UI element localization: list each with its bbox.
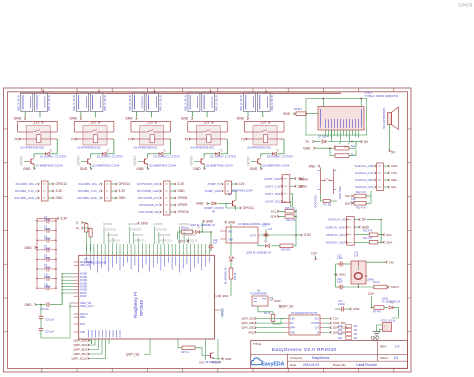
svg-text:C20 1uF: C20 1uF bbox=[45, 332, 55, 334]
wire connector to 12V rail bbox=[42, 90, 44, 94]
svg-text:GPIO8: GPIO8 bbox=[153, 222, 163, 226]
svg-text:GPIO0: GPIO0 bbox=[103, 222, 113, 226]
svg-text:-: - bbox=[384, 328, 385, 332]
wire base to gpio bbox=[251, 160, 254, 162]
value label relay K2 bbox=[77, 146, 101, 150]
svg-text:Drawn By:: Drawn By: bbox=[333, 363, 347, 367]
resistor R7 rt led bbox=[371, 306, 384, 314]
connector P11 solenoid 2 bbox=[14, 181, 67, 201]
svg-text:PAD_07_PL-05: PAD_07_PL-05 bbox=[17, 94, 20, 110]
resistor R1 1k bbox=[258, 306, 275, 324]
svg-text:(GPIO10): (GPIO10) bbox=[157, 233, 170, 237]
svg-text:100nF: 100nF bbox=[44, 268, 51, 270]
svg-text:R12 4.7k: R12 4.7k bbox=[363, 229, 374, 232]
svg-text:USB_VDD: USB_VDD bbox=[80, 265, 91, 267]
svg-text:Q3 MMBT4401-C2144: Q3 MMBT4401-C2144 bbox=[206, 164, 234, 168]
svg-text:TestPoint_GND: TestPoint_GND bbox=[354, 164, 374, 168]
wire relay to diode bbox=[50, 139, 57, 154]
svg-text:GND: GND bbox=[225, 357, 231, 361]
svg-text:QSPI_SS: QSPI_SS bbox=[126, 353, 139, 357]
wire diode to transistor collector bbox=[147, 154, 158, 158]
svg-text:SWD: SWD bbox=[80, 317, 86, 319]
svg-text:VREG_VIN: VREG_VIN bbox=[80, 303, 92, 305]
ic U7 RP2040 body bbox=[79, 255, 215, 339]
svg-text:BOOTSEL: BOOTSEL bbox=[338, 185, 342, 199]
transistor Q2 NPN bbox=[141, 158, 148, 165]
svg-text:GND: GND bbox=[250, 167, 258, 171]
wire 12V loop to relay bbox=[18, 122, 58, 133]
wire USB pins down bbox=[326, 130, 359, 142]
power 7V port 4 bbox=[184, 137, 190, 141]
svg-text:1.0: 1.0 bbox=[395, 344, 400, 348]
diode D5 flyback bbox=[216, 149, 223, 155]
svg-text:RUN: RUN bbox=[80, 324, 85, 326]
svg-text:K5 HF46F/005-HS1: K5 HF46F/005-HS1 bbox=[247, 146, 271, 150]
power 7V port 1 bbox=[14, 137, 20, 141]
svg-text:GPIO25: GPIO25 bbox=[223, 307, 225, 316]
svg-text:QSPI_SD2: QSPI_SD2 bbox=[73, 348, 87, 352]
svg-text:Q1 MMBT4401-C2144: Q1 MMBT4401-C2144 bbox=[92, 164, 120, 168]
svg-text:1uF: 1uF bbox=[351, 201, 356, 204]
svg-text:QSPI_SD1: QSPI_SD1 bbox=[241, 317, 254, 321]
rev cell bbox=[380, 344, 400, 348]
svg-text:IOVDD: IOVDD bbox=[80, 290, 87, 292]
svg-text:GND: GND bbox=[309, 164, 317, 168]
svg-text:QSPI_SCLK: QSPI_SCLK bbox=[333, 326, 348, 330]
svg-text:GPIO12: GPIO12 bbox=[179, 222, 190, 226]
svg-text:R1 1k: R1 1k bbox=[264, 312, 271, 315]
net label D- with resistor R2 bbox=[76, 221, 88, 251]
wire connector pin to relay coil bbox=[39, 112, 41, 118]
svg-text:EasyGreens: EasyGreens bbox=[312, 356, 330, 360]
svg-text:100nF: 100nF bbox=[44, 229, 51, 231]
wire connector pin to relay coil bbox=[206, 112, 208, 118]
svg-text:GPIO10: GPIO10 bbox=[178, 210, 190, 214]
svg-text:SWCLK: SWCLK bbox=[80, 314, 88, 316]
net labels GPIO grid bbox=[103, 222, 198, 243]
svg-text:D1 1N4007_C727970: D1 1N4007_C727970 bbox=[40, 154, 67, 158]
value label Q3 MMBT4401 bbox=[206, 164, 234, 168]
power 3.3V ladder bbox=[37, 217, 68, 221]
svg-text:R5 5k1: R5 5k1 bbox=[294, 108, 302, 111]
svg-text:GND: GND bbox=[196, 202, 204, 206]
svg-text:PAD_07_PL-05: PAD_07_PL-05 bbox=[48, 94, 51, 110]
svg-text:LED3 KL-1608UBC-04: LED3 KL-1608UBC-04 bbox=[190, 224, 215, 227]
wire q4 emitter gnd bbox=[235, 207, 237, 211]
svg-text:TYPE-C 16PIN 2MD(073): TYPE-C 16PIN 2MD(073) bbox=[365, 94, 398, 98]
connector P6 display bbox=[326, 217, 370, 246]
power 12V label 5 bbox=[260, 121, 270, 125]
net label XOUT bottom bbox=[212, 344, 220, 364]
power 12V rt01 bbox=[368, 292, 375, 307]
resistor R17 speaker drive bbox=[178, 344, 207, 355]
ground GND q6 bbox=[214, 357, 232, 361]
svg-text:SUN-12V-85DB-MP3: SUN-12V-85DB-MP3 bbox=[384, 107, 386, 129]
svg-text:GND: GND bbox=[206, 220, 214, 224]
net label QSPI_SS bottom bbox=[126, 344, 150, 357]
resistor R12 scl pullup bbox=[345, 191, 371, 198]
power 7V port 3 bbox=[127, 137, 133, 141]
svg-text:D+: D+ bbox=[76, 226, 80, 230]
wire diode to transistor collector bbox=[91, 154, 102, 158]
svg-text:LIGHT_SDA: LIGHT_SDA bbox=[265, 192, 281, 196]
connector P1 screw terminal A bbox=[17, 93, 32, 112]
svg-text:GPIO7: GPIO7 bbox=[246, 156, 250, 166]
svg-text:GPIO14: GPIO14 bbox=[119, 182, 131, 186]
svg-text:100nF: 100nF bbox=[44, 248, 51, 250]
svg-text:3.3V: 3.3V bbox=[56, 189, 63, 193]
svg-text:Q2 MMBT4401-C2144: Q2 MMBT4401-C2144 bbox=[149, 164, 177, 168]
transistor Q1 NPN bbox=[84, 158, 91, 165]
net label GPIO2 bbox=[20, 156, 24, 166]
ground GND connector 2 bbox=[70, 112, 82, 121]
wire 12V loop to relay bbox=[74, 122, 114, 133]
svg-text:TestPoint_SCL: TestPoint_SCL bbox=[355, 185, 374, 189]
svg-text:IOVDD: IOVDD bbox=[80, 274, 87, 276]
connector RT01 12V in bbox=[377, 318, 399, 333]
svg-text:XC6206P332MR: XC6206P332MR bbox=[250, 294, 267, 296]
power 5V speaker bbox=[391, 150, 396, 154]
resistor R11 sda pullup bbox=[345, 191, 371, 209]
svg-text:DISPLAY_SCL: DISPLAY_SCL bbox=[326, 233, 345, 237]
connector P8 pump bbox=[205, 181, 246, 194]
capacitor C19 1uF bbox=[209, 232, 219, 252]
transistor Q4 pump NPN bbox=[228, 190, 253, 207]
svg-text:R12 4.7k: R12 4.7k bbox=[356, 191, 367, 194]
svg-text:GPIO13: GPIO13 bbox=[56, 182, 68, 186]
svg-text:GND: GND bbox=[290, 332, 295, 334]
relay K1 body bbox=[18, 126, 58, 145]
title block border bbox=[251, 341, 408, 369]
svg-text:GND: GND bbox=[25, 303, 33, 307]
wire diode to transistor collector bbox=[34, 154, 45, 158]
capacitor C13 12pF bbox=[335, 278, 374, 289]
svg-text:ROTVNOB_GND: ROTVNOB_GND bbox=[137, 189, 159, 193]
wire connector to 12V rail bbox=[154, 90, 156, 94]
svg-text:QSPI_SCLK: QSPI_SCLK bbox=[71, 357, 87, 361]
capacitor C12 12pF bbox=[335, 255, 351, 267]
value label relay K1 bbox=[21, 146, 45, 150]
svg-text:Sheet:: Sheet: bbox=[380, 356, 389, 360]
svg-text:R11 4.7k: R11 4.7k bbox=[356, 206, 366, 209]
logo EasyEDA bbox=[251, 358, 285, 368]
svg-text:D2 1N4007_C727970: D2 1N4007_C727970 bbox=[97, 154, 124, 158]
svg-text:SOLSBN_3.3V_2: SOLSBN_3.3V_2 bbox=[15, 189, 38, 193]
svg-text:GPIO4: GPIO4 bbox=[128, 222, 138, 226]
mcu right pins bbox=[214, 294, 228, 318]
svg-text:SOLSBN_3.3V_1: SOLSBN_3.3V_1 bbox=[78, 189, 101, 193]
svg-text:K2 HF46F/005-HS1: K2 HF46F/005-HS1 bbox=[77, 146, 101, 150]
wire C16 to vreg pins bbox=[69, 303, 73, 338]
svg-text:R13 1k: R13 1k bbox=[235, 272, 237, 280]
title text bbox=[253, 342, 337, 352]
wire relay to diode bbox=[277, 139, 284, 154]
value label USB1 TYPE-C bbox=[365, 91, 398, 99]
connector P12 testpoints bbox=[354, 163, 397, 191]
svg-text:QSPI_SS: QSPI_SS bbox=[280, 304, 293, 308]
svg-text:RT01 12V IN: RT01 12V IN bbox=[381, 320, 395, 323]
resistor R4 1k xout bbox=[373, 281, 399, 289]
relay K2 body bbox=[74, 126, 114, 145]
ground GND connector 3 bbox=[125, 112, 137, 121]
ic U4 ldo small bbox=[250, 289, 268, 306]
svg-text:100nF: 100nF bbox=[44, 287, 51, 289]
svg-text:SDA: SDA bbox=[345, 201, 351, 205]
net label D+ with resistor R3 bbox=[76, 226, 92, 251]
value label D2 1N4007 bbox=[97, 154, 124, 158]
svg-text:R4 1k: R4 1k bbox=[373, 281, 380, 284]
svg-text:12V: 12V bbox=[311, 252, 318, 256]
net labels QSPI bottom bbox=[71, 339, 105, 361]
wire display 5V pullup rail bbox=[367, 219, 382, 243]
svg-text:ROTVNOB_DT: ROTVNOB_DT bbox=[139, 203, 159, 207]
wire connector pin to relay coil bbox=[262, 112, 264, 118]
svg-text:D3 1N4007_C727970: D3 1N4007_C727970 bbox=[153, 154, 180, 158]
svg-text:(GPIO3): (GPIO3) bbox=[109, 239, 120, 243]
svg-text:GND: GND bbox=[298, 177, 306, 181]
speaker LS1 buzzer bbox=[384, 107, 398, 130]
ground GND transistor 2 bbox=[80, 165, 92, 171]
svg-text:DO: DO bbox=[290, 323, 294, 325]
svg-text:GND: GND bbox=[181, 117, 189, 121]
ground GND usb shell with resistor R5 bbox=[283, 108, 318, 116]
svg-text:GND: GND bbox=[23, 167, 31, 171]
svg-text:K3 HF46F/005-HS1: K3 HF46F/005-HS1 bbox=[134, 146, 158, 150]
ground GND connector 4 bbox=[181, 112, 193, 121]
svg-text:GND: GND bbox=[25, 246, 33, 250]
svg-text:12pF: 12pF bbox=[337, 281, 343, 284]
net label BOOTSEL vertical 2 bbox=[314, 194, 318, 208]
svg-text:GND: GND bbox=[237, 117, 245, 121]
svg-text:Q5 MMBT4401-C2144: Q5 MMBT4401-C2144 bbox=[262, 164, 290, 168]
ground GND ladder bbox=[25, 246, 38, 250]
connector P7 light sensor bbox=[264, 175, 305, 207]
svg-text:LED9 KL-1608UBC-04: LED9 KL-1608UBC-04 bbox=[246, 251, 271, 254]
resistor R16 bbox=[178, 227, 193, 234]
svg-text:3.3V: 3.3V bbox=[304, 233, 312, 237]
svg-text:R14 4.7k: R14 4.7k bbox=[286, 219, 297, 222]
svg-text:U7: U7 bbox=[84, 257, 88, 261]
svg-text:HOLD#: HOLD# bbox=[312, 323, 320, 325]
svg-text:Lukáš Purnoch: Lukáš Purnoch bbox=[356, 363, 377, 367]
diode D1 flyback bbox=[46, 149, 53, 155]
svg-text:GPIO3: GPIO3 bbox=[76, 156, 80, 166]
svg-text:LIGHT_3.3V: LIGHT_3.3V bbox=[265, 184, 281, 188]
svg-text:GPIO3: GPIO3 bbox=[458, 3, 473, 8]
svg-text:12pF: 12pF bbox=[337, 257, 343, 260]
svg-text:TITLE:: TITLE: bbox=[253, 342, 262, 346]
svg-text:QSPI_SD1: QSPI_SD1 bbox=[333, 330, 346, 334]
svg-text:TestPoint_3.3V: TestPoint_3.3V bbox=[355, 171, 374, 175]
svg-text:XOUT: XOUT bbox=[391, 285, 400, 289]
sheet cell bbox=[380, 356, 399, 360]
power 5V port usb bbox=[352, 140, 369, 144]
svg-text:XIN: XIN bbox=[199, 360, 204, 364]
svg-text:1uF: 1uF bbox=[213, 242, 218, 245]
svg-text:GND: GND bbox=[353, 307, 359, 311]
value label U7 RP2040_C288148 bbox=[84, 257, 107, 264]
value label relay K5 bbox=[247, 146, 271, 150]
svg-text:DVDD: DVDD bbox=[80, 293, 87, 295]
svg-text:DVDD: DVDD bbox=[80, 296, 87, 298]
svg-text:(GPIO5): (GPIO5) bbox=[130, 228, 141, 232]
svg-text:GND: GND bbox=[283, 112, 291, 116]
svg-text:IOVDD: IOVDD bbox=[80, 280, 87, 282]
svg-text:SDA: SDA bbox=[270, 215, 276, 219]
ic U2 ME6211 regulator bbox=[220, 223, 271, 243]
power 12V label 4 bbox=[204, 121, 214, 125]
net labels qspi to flash bbox=[241, 317, 285, 335]
svg-text:SCL: SCL bbox=[386, 233, 392, 237]
svg-text:GPIO8: GPIO8 bbox=[178, 196, 188, 200]
wire 12V loop to relay bbox=[131, 122, 171, 133]
wire diode to transistor collector bbox=[204, 154, 215, 158]
svg-text:QSPI_SD0: QSPI_SD0 bbox=[73, 339, 87, 343]
svg-text:SOLSBN_DIG_2: SOLSBN_DIG_2 bbox=[16, 182, 38, 186]
svg-text:C16 1uF: C16 1uF bbox=[45, 320, 55, 322]
svg-text:GND: GND bbox=[193, 167, 201, 171]
svg-text:ROTVNOB_3.3V: ROTVNOB_3.3V bbox=[137, 182, 159, 186]
resistor R8 divider bbox=[335, 142, 356, 151]
value label D5 1N4007 bbox=[210, 154, 237, 158]
wire speaker to 5V bbox=[389, 125, 391, 153]
ground GND above mcu bbox=[138, 221, 149, 225]
wire base to gpio bbox=[24, 160, 27, 162]
svg-text:(GPIO6): (GPIO6) bbox=[132, 233, 143, 237]
svg-text:1uF: 1uF bbox=[268, 228, 273, 231]
connector P10 screw terminal B bbox=[258, 93, 275, 112]
svg-text:QSPI_SD1: QSPI_SD1 bbox=[73, 352, 87, 356]
connector USB1 type-c bbox=[318, 107, 364, 131]
power port GND floating bbox=[300, 177, 309, 181]
svg-text:PUMP_GND: PUMP_GND bbox=[205, 189, 221, 193]
svg-text:GND: GND bbox=[303, 146, 311, 150]
svg-text:CS#: CS# bbox=[290, 319, 295, 321]
svg-text:R11 4.7k: R11 4.7k bbox=[363, 237, 373, 240]
date cell bbox=[290, 363, 377, 367]
wire usb top stubs bbox=[323, 98, 363, 107]
svg-text:PUMP_5V: PUMP_5V bbox=[208, 182, 221, 186]
svg-text:PAD_07_PL-05: PAD_07_PL-05 bbox=[271, 94, 274, 110]
svg-text:PAD_07_PL-05: PAD_07_PL-05 bbox=[160, 94, 163, 110]
svg-text:12V: 12V bbox=[178, 239, 185, 243]
svg-text:D5 1N4007_C727970: D5 1N4007_C727970 bbox=[210, 154, 237, 158]
sheet border inner frame bbox=[8, 92, 408, 369]
svg-text:3.3V: 3.3V bbox=[119, 189, 126, 193]
power 7V port 2 bbox=[71, 137, 77, 141]
capacitor C15 1uF bbox=[25, 293, 63, 311]
svg-text:12V: 12V bbox=[239, 182, 245, 186]
svg-text:GPIO4: GPIO4 bbox=[133, 156, 137, 166]
svg-text:3.3V: 3.3V bbox=[178, 182, 185, 186]
svg-text:QSPI_SD3: QSPI_SD3 bbox=[333, 321, 346, 325]
floating net label GPIO3 bbox=[458, 3, 473, 8]
sheet border outer frame bbox=[4, 88, 412, 372]
net label GPIO4 bbox=[133, 156, 137, 166]
connector P3 screw terminal A bbox=[73, 93, 88, 112]
svg-text:R17 1k: R17 1k bbox=[181, 351, 190, 354]
svg-text:GND: GND bbox=[119, 196, 127, 200]
mcu bottom pins bbox=[89, 330, 219, 344]
svg-text:ROTVNOB_SW: ROTVNOB_SW bbox=[139, 210, 160, 214]
ground GND divider bbox=[303, 146, 335, 150]
svg-text:1/1: 1/1 bbox=[394, 356, 399, 360]
svg-text:GPIO11: GPIO11 bbox=[243, 206, 254, 210]
capacitor bank C5-C11 rails bbox=[37, 219, 56, 289]
svg-text:BOOTSEL: BOOTSEL bbox=[314, 194, 318, 208]
svg-text:GND: GND bbox=[70, 117, 78, 121]
svg-text:U3 W25Q32JVUXIQ TR: U3 W25Q32JVUXIQ TR bbox=[291, 312, 317, 315]
company cell bbox=[290, 356, 330, 360]
svg-text:SDA: SDA bbox=[391, 178, 397, 182]
svg-text:100nF: 100nF bbox=[44, 220, 51, 222]
svg-text:12V: 12V bbox=[368, 292, 375, 296]
net label GPIO3 bbox=[76, 156, 80, 166]
svg-text:D-: D- bbox=[76, 221, 79, 225]
power 12V label 2 bbox=[90, 121, 100, 125]
svg-text:DISPLAY_5V: DISPLAY_5V bbox=[328, 218, 345, 222]
svg-text:Company:: Company: bbox=[290, 356, 303, 360]
wire base to gpio bbox=[194, 160, 197, 162]
group box USB bbox=[306, 98, 367, 135]
connector P5 screw terminal A bbox=[129, 93, 144, 112]
svg-text:ADC_AVDD: ADC_AVDD bbox=[80, 261, 92, 264]
power 7V port 5 bbox=[241, 137, 247, 141]
svg-text:CLK: CLK bbox=[315, 328, 320, 330]
svg-text:GND: GND bbox=[248, 330, 254, 334]
svg-text:PAD_07_PL-05: PAD_07_PL-05 bbox=[240, 94, 243, 110]
svg-text:GND: GND bbox=[274, 299, 280, 303]
wire relay to diode bbox=[163, 139, 170, 154]
ground GND transistor 1 bbox=[23, 165, 35, 171]
svg-text:TestPoint_SDA: TestPoint_SDA bbox=[355, 178, 374, 182]
ground GND u4 bbox=[270, 297, 280, 303]
diode D6 flyback bbox=[272, 149, 279, 155]
svg-text:LIGHT_GND: LIGHT_GND bbox=[264, 177, 280, 181]
svg-text:SOLSBN_GND_2: SOLSBN_GND_2 bbox=[14, 196, 37, 200]
value label relay K3 bbox=[134, 146, 158, 150]
wire 12V loop to relay bbox=[188, 122, 228, 133]
resistor R2 bootsel pulldown bbox=[320, 194, 356, 207]
ground GND transistor 4 bbox=[193, 165, 205, 171]
wire connector to 12V rail bbox=[265, 90, 267, 94]
transistor Q5 NPN bbox=[254, 158, 261, 165]
value label Q2 MMBT4401 bbox=[149, 164, 177, 168]
svg-text:3.3V: 3.3V bbox=[333, 317, 339, 321]
wire pump gnd to transistor bbox=[231, 191, 236, 196]
wire diode to pump transistor bbox=[218, 196, 237, 203]
wire diode to transistor collector bbox=[261, 154, 272, 158]
svg-text:C17: C17 bbox=[263, 224, 268, 227]
svg-text:GND: GND bbox=[339, 273, 347, 277]
value label relay K4 bbox=[191, 146, 215, 150]
svg-text:GND: GND bbox=[56, 196, 64, 200]
resistor R11 display sda bbox=[354, 237, 392, 245]
led LED1 power bbox=[382, 297, 401, 318]
wire 12V loop to relay bbox=[244, 122, 284, 133]
ground GND xtal bbox=[335, 273, 346, 277]
svg-text:IOVDD: IOVDD bbox=[80, 283, 87, 285]
net label XIN bottom bbox=[199, 344, 206, 364]
svg-text:IOVDD: IOVDD bbox=[80, 287, 87, 289]
ground GND connector 5 bbox=[237, 112, 249, 121]
svg-text:DISPLAY_SDA: DISPLAY_SDA bbox=[326, 241, 345, 245]
connector P10 solenoid 1 bbox=[77, 181, 130, 201]
transistor Q7 NPN bbox=[28, 158, 35, 165]
svg-text:GND: GND bbox=[391, 164, 397, 168]
wire connector pin to relay coil bbox=[150, 112, 152, 118]
svg-text:3.3V: 3.3V bbox=[61, 217, 69, 221]
